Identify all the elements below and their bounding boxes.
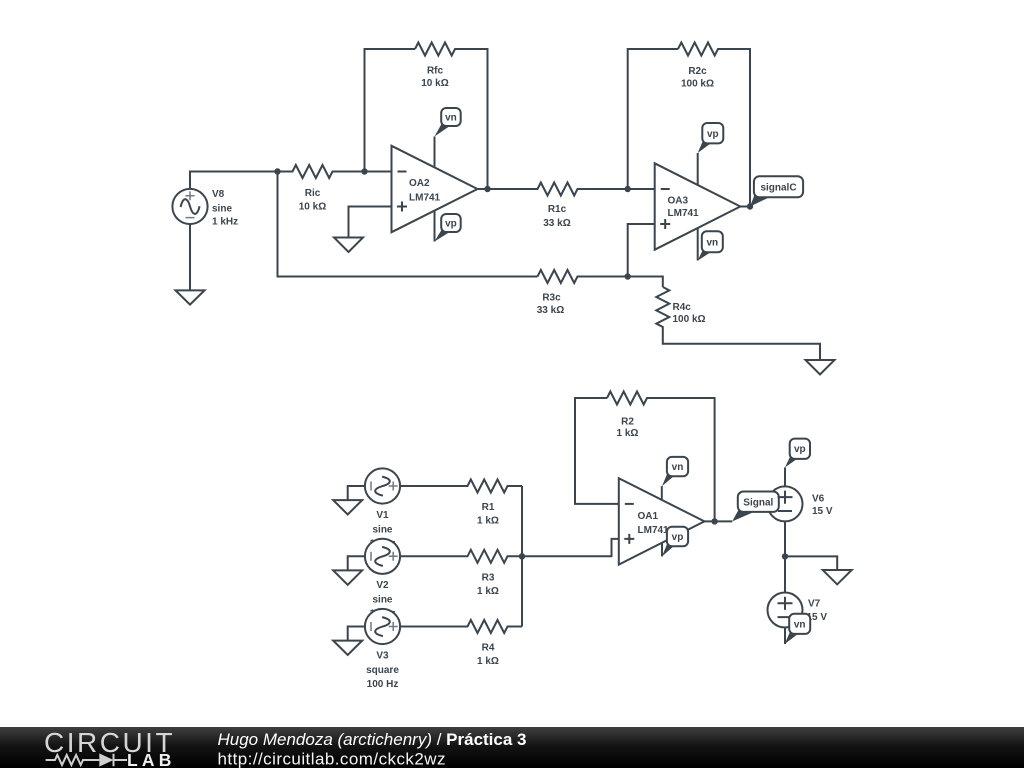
net flag vp at OA1 bottom power pin xyxy=(662,527,688,557)
svg-text:LAB: LAB xyxy=(127,750,176,768)
node OA3 output junction xyxy=(747,203,753,209)
svg-text:R2: R2 xyxy=(621,416,634,427)
net flag vn at OA1 top power pin xyxy=(662,457,688,486)
resistor R1 1 kOhm with leads xyxy=(400,480,522,493)
wire OA2 feedback loop left and top xyxy=(365,49,416,172)
net flag vn at OA3 bottom power pin xyxy=(698,231,723,260)
ground at V1 xyxy=(333,500,362,514)
wire node to R4c xyxy=(628,277,663,288)
voltage source V7 15 V xyxy=(768,593,803,628)
voltage source V2 (sine function generator) xyxy=(365,539,400,574)
svg-text:sine: sine xyxy=(372,595,392,606)
node junction R1c / OA3 feedback xyxy=(625,186,631,192)
svg-text:LM741: LM741 xyxy=(638,525,670,536)
svg-text:V7: V7 xyxy=(808,598,821,609)
resistor R4 1 kOhm with leads xyxy=(400,620,522,633)
wire V8 bottom to ground xyxy=(189,224,191,290)
svg-text:R2c: R2c xyxy=(688,66,707,77)
wire OA1 output xyxy=(704,520,732,522)
wire V1 left to ground xyxy=(348,486,365,500)
ground at V2 xyxy=(333,570,362,584)
resistor R2 1 kOhm xyxy=(607,392,715,522)
label V7 15 V xyxy=(807,598,828,623)
net flag Signal xyxy=(732,492,779,522)
node junction R3c / R4c / OA3 noninverting xyxy=(625,273,631,279)
voltage source V6 15 V body xyxy=(768,486,803,521)
wire to OA3 inverting input xyxy=(628,188,655,190)
voltage source V3 (square function generator) xyxy=(365,609,400,644)
wire node A down to R3c xyxy=(278,172,538,277)
op-amp OA2 LM741 xyxy=(392,137,478,242)
svg-text:OA3: OA3 xyxy=(668,196,689,207)
net flag vp at OA3 top power pin xyxy=(698,123,724,153)
svg-text:OA2: OA2 xyxy=(409,178,430,189)
label R3 1 kOhm xyxy=(477,572,499,597)
label R2c 100 kOhm xyxy=(681,66,714,90)
svg-text:LM741: LM741 xyxy=(668,208,700,219)
svg-text:1 kHz: 1 kHz xyxy=(212,217,238,228)
svg-text:R1: R1 xyxy=(482,502,495,513)
svg-text:R1c: R1c xyxy=(548,204,567,215)
ground at V3 xyxy=(333,641,362,655)
resistor R2c 100 kOhm xyxy=(678,43,750,207)
svg-text:1 kΩ: 1 kΩ xyxy=(617,428,639,439)
svg-text:R4c: R4c xyxy=(673,302,692,313)
svg-text:1 kΩ: 1 kΩ xyxy=(477,656,499,667)
label OA1 LM741 xyxy=(638,511,670,536)
svg-text:1 kΩ: 1 kΩ xyxy=(477,586,499,597)
svg-text:vp: vp xyxy=(672,532,684,543)
svg-text:R3: R3 xyxy=(482,572,495,583)
wire junction to ground xyxy=(785,556,837,570)
op-amp OA1 LM741 xyxy=(619,478,705,564)
label Ric 10 kOhm xyxy=(299,188,326,213)
wire to OA2 inverting input xyxy=(365,171,392,173)
resistor Ric 10 kOhm xyxy=(278,165,365,178)
wire V8 top to node A xyxy=(190,172,278,190)
ground at V6 V7 junction xyxy=(823,570,852,584)
footer bar xyxy=(0,727,1024,768)
resistor R3c 33 kOhm xyxy=(538,270,628,283)
svg-text:33 kΩ: 33 kΩ xyxy=(543,218,570,229)
label R3c 33 kOhm xyxy=(537,293,564,317)
wire V6 bottom to V7 top xyxy=(784,521,786,592)
svg-text:R4: R4 xyxy=(482,643,495,654)
svg-text:1 kΩ: 1 kΩ xyxy=(477,516,499,527)
resistor R3 1 kOhm with leads xyxy=(400,550,522,563)
voltage source V8 (sine function generator) xyxy=(172,189,207,224)
node summing junction xyxy=(519,553,525,559)
label V8 sine 1 kHz xyxy=(212,189,238,228)
svg-text:Rfc: Rfc xyxy=(427,66,444,77)
node junction Ric / feedback xyxy=(361,168,367,174)
svg-text:sine: sine xyxy=(372,525,392,536)
svg-text:sine: sine xyxy=(212,204,232,215)
label R1 1 kOhm xyxy=(477,502,499,527)
svg-text:vn: vn xyxy=(706,237,718,248)
node A junction dot xyxy=(274,168,280,174)
svg-text:vp: vp xyxy=(445,219,457,230)
CircuitLab logo resistor-diode glyph xyxy=(46,754,127,766)
label V6 15 V xyxy=(812,494,833,517)
svg-text:V3: V3 xyxy=(376,651,389,662)
wire OA1 inverting input and feedback loop xyxy=(575,398,619,504)
wire summing bus vertical xyxy=(521,486,523,627)
label R2 1 kOhm xyxy=(617,416,639,439)
op-amp OA3 LM741 xyxy=(655,153,741,261)
net flag vp at OA2 bottom power pin xyxy=(435,214,461,242)
wire V7 bottom power stub xyxy=(784,628,786,645)
node OA1 output junction xyxy=(711,518,717,524)
ground under V8 xyxy=(176,290,205,304)
label V1 sine 1 kHz xyxy=(369,510,395,549)
svg-text:V1: V1 xyxy=(376,510,389,521)
svg-text:10 kΩ: 10 kΩ xyxy=(299,202,326,213)
svg-text:R3c: R3c xyxy=(542,293,561,304)
svg-text:http://circuitlab.com/ckck2wz: http://circuitlab.com/ckck2wz xyxy=(218,750,446,768)
wire OA3 noninverting input xyxy=(628,224,655,277)
svg-text:100 kΩ: 100 kΩ xyxy=(681,79,714,90)
wire to OA1 noninverting input xyxy=(522,539,619,556)
voltage source V1 (sine function generator) xyxy=(365,468,400,503)
svg-text:Hugo Mendoza (arctichenry) / P: Hugo Mendoza (arctichenry) / Práctica 3 xyxy=(218,730,527,749)
net flag vn at OA2 top power pin xyxy=(435,108,461,137)
node OA2 output junction xyxy=(484,186,490,192)
label OA2 LM741 xyxy=(409,178,441,203)
svg-text:OA1: OA1 xyxy=(638,511,659,522)
resistor R1c 33 kOhm xyxy=(478,183,628,196)
FOOTER xyxy=(0,727,1024,768)
resistor R4c 100 kOhm (vertical) xyxy=(656,287,820,360)
svg-text:vn: vn xyxy=(445,113,457,124)
net flag vn at V7 xyxy=(785,614,811,644)
label Rfc 10 kOhm xyxy=(421,66,448,90)
svg-text:vn: vn xyxy=(672,462,684,473)
wire V2 left to ground xyxy=(348,556,365,570)
svg-text:signalC: signalC xyxy=(760,182,796,193)
resistor Rfc 10 kOhm xyxy=(415,43,488,190)
svg-text:V8: V8 xyxy=(212,189,225,200)
net flag signalC xyxy=(750,176,803,206)
svg-text:square: square xyxy=(366,665,399,676)
svg-text:vn: vn xyxy=(794,619,806,630)
label V2 sine 1 kHz xyxy=(369,580,395,619)
voltage source V6 polarity symbols xyxy=(778,491,793,511)
svg-text:V6: V6 xyxy=(812,494,825,505)
label R4c 100 kOhm xyxy=(673,302,706,325)
label V3 square 100 Hz xyxy=(366,651,399,690)
svg-text:Ric: Ric xyxy=(305,188,321,199)
svg-text:100 Hz: 100 Hz xyxy=(367,679,399,690)
svg-text:vp: vp xyxy=(707,129,719,140)
svg-text:100 kΩ: 100 kΩ xyxy=(673,314,706,325)
label R1c 33 kOhm xyxy=(543,204,570,229)
ground at R4c xyxy=(806,360,835,375)
wire V3 left to ground xyxy=(348,627,365,641)
svg-text:33 kΩ: 33 kΩ xyxy=(537,305,564,316)
svg-text:Signal: Signal xyxy=(743,497,773,508)
label OA3 LM741 xyxy=(668,196,700,219)
wire OA3 feedback loop left and top xyxy=(628,49,678,189)
label R4 1 kOhm xyxy=(477,643,499,668)
ground at OA2 noninverting input xyxy=(334,238,363,253)
svg-text:LM741: LM741 xyxy=(409,192,441,203)
wire V6 top power stub xyxy=(784,467,786,486)
net flag vp at V6 xyxy=(785,439,810,468)
svg-text:10 kΩ: 10 kΩ xyxy=(421,78,448,89)
svg-text:vp: vp xyxy=(794,444,806,455)
wire OA2 noninverting input to ground xyxy=(349,207,392,238)
node junction V6 V7 ground xyxy=(782,553,788,559)
svg-text:V2: V2 xyxy=(376,580,389,591)
wire OA3 output to node signalC xyxy=(740,206,750,208)
svg-text:15 V: 15 V xyxy=(812,506,833,517)
